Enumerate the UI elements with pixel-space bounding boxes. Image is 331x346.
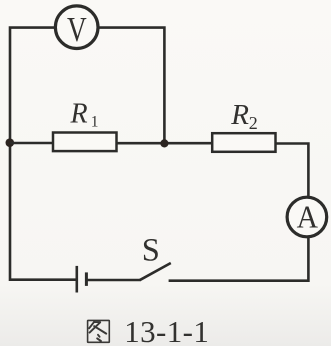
voltmeter U1 (V) [55, 6, 98, 49]
svg-text:R: R [70, 98, 88, 129]
wire: R1 right lead through node B to R2 left lead [117, 142, 211, 145]
label R2 [230, 99, 258, 133]
wire: node A to R1 left lead [10, 142, 53, 145]
caption glyph 图 (drawn) [88, 320, 110, 342]
wire: voltmeter right to top-right corner, down to junction node B [98, 28, 165, 142]
switch S blade (open) [140, 263, 171, 280]
battery BT1: long plate [76, 266, 79, 293]
wire: R2 right lead, corner down to ammeter top [275, 144, 308, 197]
svg-text:1: 1 [91, 113, 99, 130]
svg-text:V: V [67, 10, 87, 49]
resistor R1 (box) [53, 133, 117, 152]
svg-text:A: A [297, 200, 318, 235]
node B (right junction dot) [160, 139, 168, 147]
wire: top-left horizontal + left vertical side down to battery [10, 28, 76, 280]
wire: ammeter bottom down, bottom-right corner, left to switch right contact [169, 238, 309, 281]
svg-text:13-1-1: 13-1-1 [124, 314, 209, 346]
svg-text:S: S [142, 233, 160, 269]
battery BT1: short plate [85, 272, 88, 286]
svg-text:R: R [230, 99, 249, 131]
svg-text:2: 2 [249, 113, 258, 133]
wire: battery positive to switch pivot [86, 279, 140, 282]
label R1 [70, 98, 99, 130]
resistor R2 (box) [212, 133, 275, 152]
node A (left junction dot) [6, 138, 15, 147]
ammeter U2 (A) [287, 197, 327, 237]
